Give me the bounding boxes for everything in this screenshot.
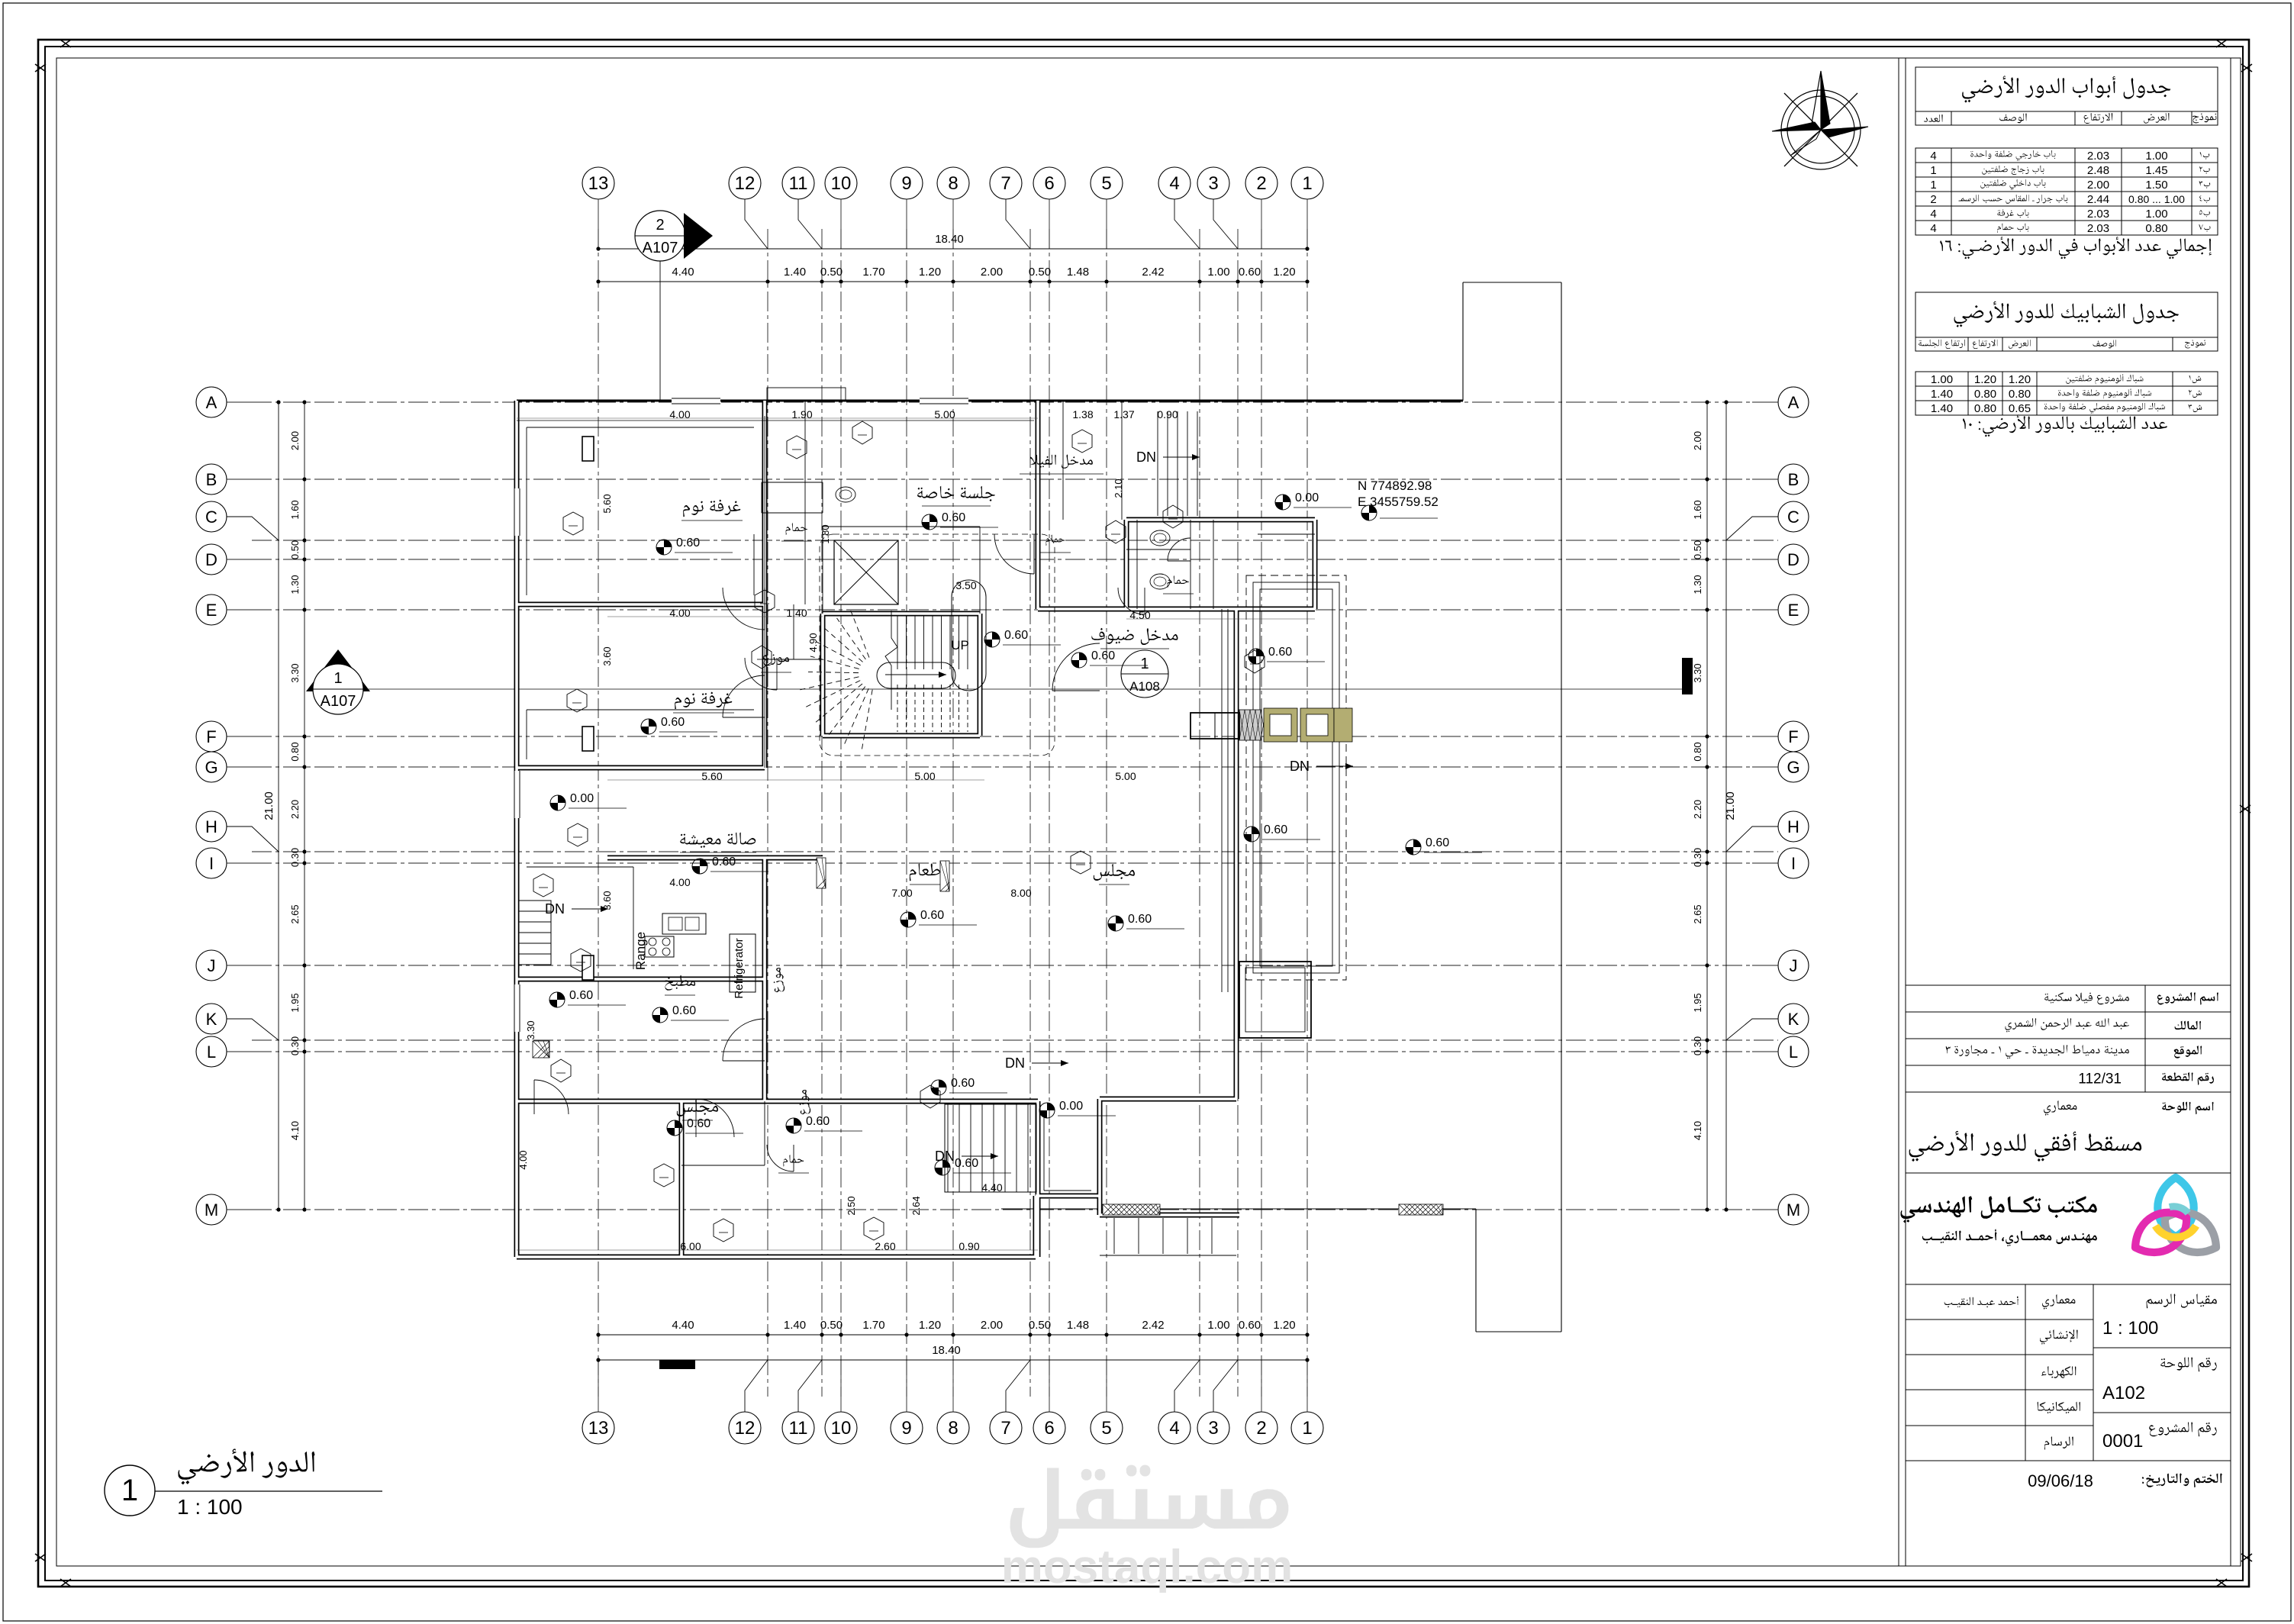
svg-text:2.64: 2.64 — [910, 1196, 922, 1215]
svg-text:1.30: 1.30 — [1692, 575, 1703, 594]
svg-text:1.70: 1.70 — [862, 1319, 884, 1332]
svg-text:1.20: 1.20 — [919, 1319, 941, 1332]
svg-text:J: J — [208, 956, 216, 975]
svg-text:1.00: 1.00 — [2145, 150, 2167, 163]
svg-text:B: B — [206, 470, 217, 489]
svg-text:2.03: 2.03 — [2087, 208, 2109, 221]
svg-text:10: 10 — [831, 173, 852, 194]
svg-text:3: 3 — [1208, 173, 1218, 194]
svg-text:4.40: 4.40 — [672, 1319, 694, 1332]
svg-text:0.00: 0.00 — [1059, 1100, 1083, 1113]
svg-text:0001: 0001 — [2102, 1431, 2143, 1452]
svg-text:1.00: 1.00 — [1207, 1319, 1229, 1332]
svg-text:DN: DN — [545, 901, 565, 917]
svg-text:2.00: 2.00 — [1692, 431, 1703, 450]
svg-text:2.10: 2.10 — [1113, 478, 1124, 498]
svg-text:1.40: 1.40 — [786, 607, 807, 619]
svg-text:1.45: 1.45 — [2145, 164, 2167, 177]
svg-text:8: 8 — [948, 1418, 958, 1439]
svg-text:0.30: 0.30 — [1692, 1036, 1703, 1055]
svg-text:0.60: 0.60 — [1268, 646, 1292, 659]
svg-text:1 : 100: 1 : 100 — [2102, 1318, 2158, 1339]
svg-text:0.60: 0.60 — [1091, 649, 1115, 662]
svg-text:2.20: 2.20 — [1692, 800, 1703, 819]
svg-text:1.60: 1.60 — [1692, 500, 1703, 519]
svg-text:M: M — [1787, 1200, 1800, 1220]
svg-text:B: B — [1788, 470, 1799, 489]
svg-text:12: 12 — [735, 1418, 756, 1439]
svg-text:21.00: 21.00 — [263, 791, 275, 820]
svg-text:1.00: 1.00 — [1931, 373, 1953, 386]
svg-text:1: 1 — [333, 670, 342, 687]
svg-text:13: 13 — [588, 1418, 609, 1439]
svg-text:0.60: 0.60 — [1004, 629, 1028, 642]
svg-text:2: 2 — [1256, 1418, 1266, 1439]
svg-text:1: 1 — [1930, 179, 1936, 192]
svg-text:5: 5 — [1101, 1418, 1111, 1439]
svg-text:mostaql.com: mostaql.com — [1001, 1541, 1293, 1593]
svg-text:0.50: 0.50 — [1029, 1319, 1051, 1332]
svg-text:0.60: 0.60 — [687, 1117, 710, 1130]
svg-text:Refrigerator: Refrigerator — [733, 938, 746, 998]
svg-text:K: K — [206, 1010, 217, 1029]
svg-text:C: C — [205, 507, 217, 527]
svg-text:09/06/18: 09/06/18 — [2028, 1471, 2093, 1490]
svg-text:1.95: 1.95 — [289, 993, 301, 1012]
svg-text:G: G — [1787, 758, 1799, 777]
svg-text:3: 3 — [1208, 1418, 1218, 1439]
svg-text:F: F — [206, 727, 216, 746]
svg-text:4.50: 4.50 — [1129, 609, 1150, 621]
svg-text:2.00: 2.00 — [981, 266, 1003, 279]
svg-text:1.48: 1.48 — [1067, 266, 1089, 279]
svg-text:3.30: 3.30 — [1692, 663, 1703, 682]
svg-text:1.00: 1.00 — [2145, 208, 2167, 221]
svg-text:7: 7 — [1000, 173, 1010, 194]
svg-text:4.10: 4.10 — [1692, 1121, 1703, 1140]
svg-text:0.30: 0.30 — [1692, 848, 1703, 867]
svg-text:H: H — [205, 817, 217, 836]
svg-text:2.42: 2.42 — [1142, 266, 1164, 279]
svg-text:DN: DN — [1290, 759, 1310, 774]
svg-text:18.40: 18.40 — [932, 1344, 961, 1357]
svg-text:1.20: 1.20 — [919, 266, 941, 279]
svg-text:1.37: 1.37 — [1113, 408, 1134, 420]
svg-text:0.60: 0.60 — [569, 989, 593, 1002]
svg-text:0.60: 0.60 — [951, 1077, 975, 1090]
svg-text:1.30: 1.30 — [289, 575, 301, 594]
svg-text:A: A — [1788, 393, 1799, 412]
svg-text:0.30: 0.30 — [289, 1036, 301, 1055]
svg-text:K: K — [1788, 1010, 1799, 1029]
svg-text:0.00: 0.00 — [570, 792, 594, 805]
svg-text:1.90: 1.90 — [791, 408, 812, 420]
svg-text:4.40: 4.40 — [672, 266, 694, 279]
svg-text:6.00: 6.00 — [680, 1240, 701, 1252]
svg-text:A: A — [206, 393, 217, 412]
svg-text:0.80: 0.80 — [289, 742, 301, 761]
svg-text:2.65: 2.65 — [289, 904, 301, 923]
svg-text:A108: A108 — [1129, 679, 1160, 694]
svg-text:4.90: 4.90 — [807, 633, 819, 652]
svg-text:5.00: 5.00 — [934, 408, 955, 420]
svg-text:0.30: 0.30 — [289, 848, 301, 867]
svg-text:2: 2 — [1256, 173, 1266, 194]
svg-text:4: 4 — [1930, 150, 1936, 163]
svg-text:0.50: 0.50 — [820, 266, 843, 279]
svg-text:0.60: 0.60 — [1426, 836, 1449, 849]
svg-text:1 : 100: 1 : 100 — [177, 1495, 243, 1519]
svg-text:E: E — [1788, 601, 1799, 620]
svg-text:5.60: 5.60 — [601, 494, 613, 513]
svg-text:2.48: 2.48 — [2087, 164, 2109, 177]
svg-text:7.00: 7.00 — [891, 887, 912, 899]
svg-text:2.60: 2.60 — [875, 1240, 895, 1252]
svg-text:2.50: 2.50 — [846, 1196, 857, 1215]
svg-text:0.80: 0.80 — [1974, 402, 1996, 415]
svg-text:1.40: 1.40 — [784, 266, 806, 279]
svg-text:1: 1 — [1302, 173, 1312, 194]
svg-text:1: 1 — [1302, 1418, 1312, 1439]
svg-text:0.50: 0.50 — [1692, 540, 1703, 559]
svg-text:4: 4 — [1930, 208, 1936, 221]
svg-text:0.60: 0.60 — [672, 1004, 696, 1017]
svg-text:4: 4 — [1930, 222, 1936, 235]
svg-text:A102: A102 — [2102, 1383, 2145, 1403]
svg-text:1.20: 1.20 — [1273, 266, 1295, 279]
svg-text:A107: A107 — [321, 693, 356, 710]
svg-text:3.30: 3.30 — [525, 1020, 536, 1039]
svg-text:N 774892.98: N 774892.98 — [1358, 478, 1432, 493]
svg-text:3.30: 3.30 — [289, 663, 301, 682]
svg-text:3.60: 3.60 — [601, 891, 613, 910]
svg-text:2: 2 — [656, 217, 664, 234]
svg-text:0.60: 0.60 — [1264, 823, 1287, 836]
svg-text:C: C — [1787, 507, 1799, 527]
svg-text:1.40: 1.40 — [784, 1319, 806, 1332]
svg-text:5.00: 5.00 — [914, 770, 935, 782]
svg-text:1.95: 1.95 — [1692, 993, 1703, 1012]
svg-text:DN: DN — [935, 1149, 955, 1164]
svg-text:1.70: 1.70 — [862, 266, 884, 279]
svg-text:0.80: 0.80 — [1692, 742, 1703, 761]
svg-text:2.03: 2.03 — [2087, 150, 2109, 163]
svg-text:21.00: 21.00 — [1724, 791, 1737, 820]
svg-text:F: F — [1788, 727, 1798, 746]
svg-text:8: 8 — [948, 173, 958, 194]
svg-text:0.90: 0.90 — [1157, 408, 1178, 420]
svg-text:4.00: 4.00 — [669, 607, 690, 619]
svg-text:1: 1 — [1140, 656, 1149, 672]
svg-text:0.60: 0.60 — [1128, 913, 1152, 926]
svg-text:G: G — [205, 758, 217, 777]
svg-text:4.00: 4.00 — [669, 876, 690, 888]
svg-text:2.00: 2.00 — [289, 431, 301, 450]
svg-text:1.80: 1.80 — [820, 524, 831, 543]
svg-text:7: 7 — [1000, 1418, 1010, 1439]
svg-text:E 3455759.52: E 3455759.52 — [1358, 495, 1439, 509]
svg-text:0.90: 0.90 — [959, 1240, 979, 1252]
svg-text:3.50: 3.50 — [955, 579, 976, 591]
svg-text:I: I — [1791, 854, 1796, 873]
svg-text:0.80: 0.80 — [2145, 222, 2167, 235]
svg-text:1.40: 1.40 — [1931, 388, 1953, 401]
svg-text:1.48: 1.48 — [1067, 1319, 1089, 1332]
svg-text:1.38: 1.38 — [1072, 408, 1093, 420]
svg-text:UP: UP — [951, 638, 969, 652]
svg-text:1: 1 — [1930, 164, 1936, 177]
svg-text:L: L — [207, 1042, 216, 1062]
svg-text:L: L — [1789, 1042, 1798, 1062]
svg-text:5.60: 5.60 — [701, 770, 722, 782]
svg-text:0.60: 0.60 — [1239, 1319, 1261, 1332]
svg-text:2.00: 2.00 — [2087, 179, 2109, 192]
svg-text:DN: DN — [1005, 1055, 1025, 1071]
svg-text:0.00: 0.00 — [1295, 491, 1319, 504]
svg-text:2.03: 2.03 — [2087, 222, 2109, 235]
svg-text:0.60: 0.60 — [942, 511, 965, 524]
svg-text:4.10: 4.10 — [289, 1121, 301, 1140]
svg-text:2.20: 2.20 — [289, 800, 301, 819]
svg-text:1.50: 1.50 — [2145, 179, 2167, 192]
svg-text:0.65: 0.65 — [2009, 402, 2031, 415]
svg-text:12: 12 — [735, 173, 756, 194]
svg-text:0.80: 0.80 — [2009, 388, 2031, 401]
svg-text:6: 6 — [1044, 173, 1054, 194]
svg-text:0.50: 0.50 — [1029, 266, 1051, 279]
svg-text:0.50: 0.50 — [289, 540, 301, 559]
svg-text:0.80: 0.80 — [1974, 388, 1996, 401]
svg-text:1.20: 1.20 — [2009, 373, 2031, 386]
svg-text:A107: A107 — [643, 240, 678, 256]
svg-text:H: H — [1787, 817, 1799, 836]
svg-text:5: 5 — [1101, 173, 1111, 194]
svg-text:2.00: 2.00 — [981, 1319, 1003, 1332]
svg-text:2.44: 2.44 — [2087, 193, 2109, 206]
svg-text:0.60: 0.60 — [676, 536, 700, 549]
svg-text:10: 10 — [831, 1418, 852, 1439]
svg-text:4: 4 — [1169, 173, 1179, 194]
svg-text:1.20: 1.20 — [1974, 373, 1996, 386]
svg-text:0.60: 0.60 — [712, 855, 736, 868]
svg-text:4.00: 4.00 — [669, 408, 690, 420]
svg-text:11: 11 — [789, 173, 808, 194]
svg-text:M: M — [205, 1200, 218, 1220]
svg-text:1.60: 1.60 — [289, 500, 301, 519]
svg-text:J: J — [1790, 956, 1798, 975]
svg-text:0.50: 0.50 — [820, 1319, 843, 1332]
svg-text:4.00: 4.00 — [517, 1150, 529, 1169]
svg-text:11: 11 — [789, 1418, 808, 1439]
svg-text:0.60: 0.60 — [806, 1115, 830, 1128]
svg-text:DN: DN — [1136, 449, 1156, 465]
svg-text:0.80 ... 1.00: 0.80 ... 1.00 — [2128, 193, 2185, 205]
svg-text:2.42: 2.42 — [1142, 1319, 1164, 1332]
svg-text:1: 1 — [121, 1474, 138, 1507]
svg-text:2: 2 — [1930, 193, 1936, 206]
svg-text:5.00: 5.00 — [1115, 770, 1136, 782]
svg-text:Range: Range — [633, 932, 648, 970]
svg-text:13: 13 — [588, 173, 609, 194]
svg-text:4.40: 4.40 — [981, 1181, 1002, 1194]
svg-text:0.60: 0.60 — [1239, 266, 1261, 279]
svg-text:6: 6 — [1044, 1418, 1054, 1439]
svg-text:0.60: 0.60 — [920, 909, 944, 922]
svg-text:4: 4 — [1169, 1418, 1179, 1439]
svg-text:0.60: 0.60 — [955, 1157, 978, 1170]
svg-text:I: I — [209, 854, 214, 873]
svg-text:D: D — [205, 550, 217, 569]
svg-text:0.60: 0.60 — [661, 716, 685, 729]
svg-text:9: 9 — [901, 1418, 911, 1439]
svg-text:18.40: 18.40 — [935, 233, 964, 246]
svg-text:1.00: 1.00 — [1207, 266, 1229, 279]
svg-text:1.20: 1.20 — [1273, 1319, 1295, 1332]
svg-text:E: E — [206, 601, 217, 620]
svg-text:1.40: 1.40 — [1931, 402, 1953, 415]
svg-text:112/31: 112/31 — [2078, 1071, 2122, 1087]
svg-text:D: D — [1787, 550, 1799, 569]
svg-text:3.60: 3.60 — [601, 646, 613, 665]
svg-text:2.65: 2.65 — [1692, 904, 1703, 923]
svg-text:8.00: 8.00 — [1010, 887, 1031, 899]
svg-text:9: 9 — [901, 173, 911, 194]
